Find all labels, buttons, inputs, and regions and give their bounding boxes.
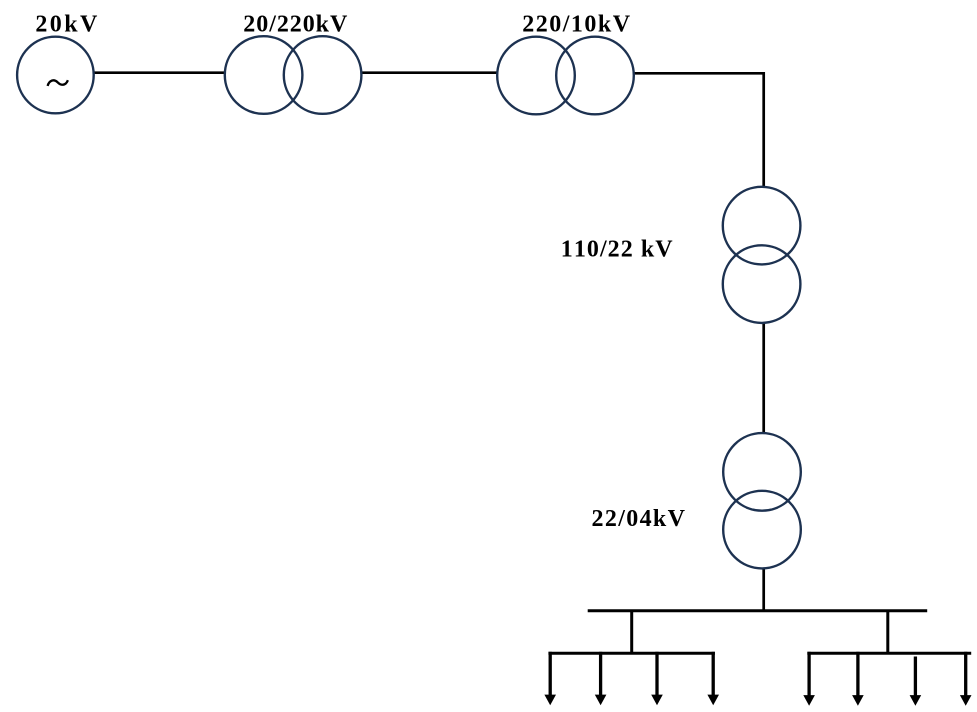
transformer T3 110/22kV	[723, 187, 801, 323]
load arrow L1	[544, 652, 556, 705]
transformer T1 20/220kV	[225, 36, 362, 114]
load arrow L6	[852, 652, 864, 706]
svg-text:110/22 kV: 110/22 kV	[561, 237, 674, 263]
left feeder bus	[548, 652, 715, 655]
load arrow L8	[960, 652, 972, 706]
svg-text:20kV: 20kV	[35, 11, 99, 37]
load arrow L5	[803, 652, 815, 706]
svg-text:22/04kV: 22/04kV	[592, 506, 687, 532]
drop wire to right feeder	[886, 611, 889, 655]
svg-text:220/10kV: 220/10kV	[522, 11, 631, 37]
load arrow L7	[910, 657, 922, 706]
wire T1 to T2	[361, 71, 499, 74]
wire generator to T1	[93, 71, 226, 74]
main busbar	[588, 609, 928, 612]
right feeder bus	[807, 652, 971, 655]
transformer T2 220/10kV	[497, 37, 634, 115]
drop wire to left feeder	[630, 611, 633, 655]
load arrow L2	[595, 652, 607, 705]
load arrow L3	[651, 652, 663, 705]
generator G	[17, 37, 94, 114]
wire T2 to T3 (corner)	[633, 73, 764, 612]
transformer T4 22/04kV	[723, 433, 801, 568]
load arrow L4	[707, 652, 719, 705]
svg-text:20/220kV: 20/220kV	[243, 11, 348, 37]
